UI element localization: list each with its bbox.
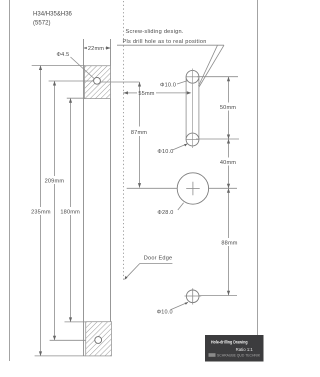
- svg-text:Φ10.0: Φ10.0: [157, 149, 173, 155]
- right dimension vertical 88mm segment: [228, 188, 230, 238]
- slot centre line: [191, 69, 193, 149]
- bottom block hole: [95, 337, 102, 344]
- dimension 209mm vertical: [54, 81, 56, 176]
- ext line top of block (235mm): [32, 65, 85, 67]
- title block: [205, 335, 264, 362]
- 55mm dimension line: [123, 92, 137, 94]
- Door Edge underline: [140, 262, 173, 264]
- D28.0 leader: [178, 203, 184, 210]
- D10.0 bottom leader: [171, 302, 189, 310]
- left page border: [9, 0, 11, 361]
- D10.0 top leader: [177, 81, 188, 85]
- svg-text:Hole-drilling Drawing: Hole-drilling Drawing: [211, 339, 248, 345]
- slot right tangent: [198, 77, 200, 140]
- svg-text:88mm: 88mm: [221, 240, 237, 246]
- bottom hole cross: [185, 295, 202, 297]
- svg-text:87mm: 87mm: [131, 130, 147, 136]
- svg-text:Φ10.0: Φ10.0: [157, 310, 173, 316]
- svg-text:Φ10.0: Φ10.0: [160, 83, 176, 89]
- bottom hatch block: [86, 322, 112, 356]
- svg-text:Screw-sliding design.: Screw-sliding design.: [126, 29, 184, 35]
- svg-text:Pls drill hole as to real posi: Pls drill hole as to real position: [123, 39, 207, 45]
- dimension 235mm vertical: [40, 66, 42, 208]
- ext line big circle left: [127, 187, 178, 189]
- svg-text:55mm: 55mm: [138, 91, 154, 97]
- dimension 87mm vertical: [139, 82, 141, 127]
- right page border: [257, 0, 259, 335]
- svg-text:Door Edge: Door Edge: [144, 255, 173, 261]
- svg-text:40mm: 40mm: [220, 160, 236, 166]
- right dim arrows: [227, 77, 230, 82]
- slot left tangent: [185, 77, 187, 140]
- note leader wedge line 2: [199, 45, 218, 86]
- dimension 180mm vertical: [70, 98, 72, 207]
- top hatch block: [85, 66, 111, 99]
- svg-text:Φ4.5: Φ4.5: [57, 52, 70, 58]
- 22mm label: [87, 44, 105, 51]
- hole D4.5: [94, 77, 101, 84]
- right dimension vertical 50mm segment: [228, 77, 230, 103]
- svg-text:22mm: 22mm: [88, 46, 104, 52]
- svg-text:180mm: 180mm: [60, 209, 80, 215]
- svg-text:209mm: 209mm: [45, 178, 65, 184]
- svg-text:Φ28.0: Φ28.0: [157, 210, 173, 216]
- svg-text:SCHRAUBE QUD TECHNIK: SCHRAUBE QUD TECHNIK: [217, 354, 261, 358]
- title block footer logo: [209, 353, 216, 357]
- 22mm arrow right: [106, 46, 111, 49]
- D4.5 leader: [71, 57, 95, 79]
- D10.0 slot bottom leader: [173, 144, 187, 150]
- 22mm arrow left: [84, 46, 89, 49]
- bottom hole circle: [186, 290, 199, 303]
- section view left face: [83, 39, 85, 356]
- right ext line slot bottom centre: [196, 138, 239, 140]
- svg-text:H34/H35&H36: H34/H35&H36: [33, 12, 73, 18]
- slot bottom circle: [186, 133, 199, 146]
- right ext line slot top centre: [197, 76, 238, 78]
- ext line top of bottom block (180mm): [65, 321, 86, 323]
- ext line bottom of bottom block (235mm): [35, 355, 86, 357]
- right ext line big circle centre: [209, 187, 237, 189]
- right ext line bottom hole centre: [200, 295, 238, 297]
- slot bottom circle cross: [186, 139, 199, 141]
- big circle D28: [177, 173, 208, 204]
- svg-text:235mm: 235mm: [31, 209, 51, 215]
- note underline: [117, 44, 224, 46]
- big circle cross: [186, 188, 200, 190]
- svg-text:Ratio 1:1: Ratio 1:1: [236, 347, 254, 352]
- ext line bottom hole centre (209mm): [50, 339, 95, 341]
- ext line bottom of block (180mm): [67, 97, 85, 99]
- svg-text:(5572): (5572): [33, 21, 50, 27]
- section view right face: [110, 39, 112, 356]
- note leader wedge line 1: [199, 45, 224, 87]
- door edge dotted line: [123, 1, 125, 280]
- right dimension vertical 40mm segment: [228, 139, 230, 158]
- ext line hole centre (209mm): [49, 80, 94, 82]
- slot top circle cross: [186, 76, 199, 78]
- svg-text:50mm: 50mm: [220, 105, 236, 111]
- slot top circle: [186, 70, 199, 83]
- dimension 87mm horizontal from D4.5 hole: [101, 81, 140, 83]
- Door Edge leader: [125, 263, 140, 279]
- 22mm dimension line: [84, 47, 111, 49]
